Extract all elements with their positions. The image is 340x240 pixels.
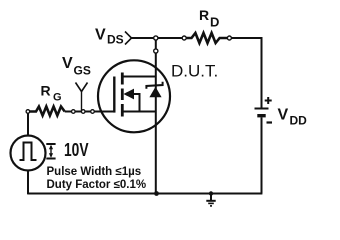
wire RD to top-right corner down to battery (231, 38, 261, 108)
battery VDD (255, 97, 273, 123)
body diode (zener) (146, 82, 162, 98)
node: gate measure point 3 (91, 110, 95, 114)
pulse generator V1 (11, 136, 46, 171)
svg-text:V: V (278, 107, 289, 124)
label RD (199, 7, 219, 30)
MOSFET Q1 internals (114, 73, 156, 117)
source stub (122, 111, 156, 113)
label RG (41, 83, 62, 104)
svg-text:DS: DS (107, 33, 124, 47)
wire drain-source vertical (VDS node down through DUT to bottom rail) (155, 38, 157, 194)
label VGS (62, 55, 91, 78)
node: drain measure point (154, 36, 158, 40)
label VDS (95, 27, 124, 47)
channel segment bottom (121, 104, 124, 117)
svg-text:R: R (41, 83, 51, 99)
wire pulse generator to bottom rail (27, 171, 29, 195)
node: measure point below (154, 49, 158, 53)
resistor RG (26, 107, 65, 116)
svg-text:DD: DD (290, 114, 308, 128)
gate bar (113, 77, 115, 113)
svg-text:G: G (53, 92, 62, 104)
wire battery to bottom rail (261, 118, 263, 194)
label VDD (278, 107, 308, 128)
svg-text:D: D (210, 15, 219, 30)
svg-text:D.U.T.: D.U.T. (171, 62, 218, 81)
svg-text:GS: GS (74, 64, 91, 78)
channel segment top (121, 73, 124, 85)
wire RG down to pulse generator (27, 113, 29, 136)
wire bottom rail (27, 193, 262, 195)
body arrow (124, 89, 135, 100)
channel segment middle (121, 89, 124, 101)
svg-text:V: V (95, 27, 106, 44)
svg-text:Pulse Width ≤1µs: Pulse Width ≤1µs (47, 166, 142, 178)
svg-text:Duty Factor ≤0.1%: Duty Factor ≤0.1% (47, 179, 147, 191)
arrow VDS probe (125, 32, 132, 45)
wire top rail left (VDS arrow to RD) (132, 37, 183, 39)
svg-text:R: R (199, 7, 209, 23)
drain stub (122, 76, 156, 78)
resistor RD (182, 33, 231, 43)
MOSFET D.U.T. circle (98, 60, 170, 132)
arrow VGS probe (76, 83, 88, 111)
ground (206, 191, 215, 206)
wire gate (RG to gate bar) (65, 111, 115, 113)
svg-text:10V: 10V (64, 139, 89, 160)
node: gate measure point 1 (72, 110, 76, 114)
node: gate measure point 2 (81, 110, 85, 114)
junction dot source at bottom rail (154, 191, 159, 196)
amplitude marker (46, 144, 55, 159)
svg-text:V: V (62, 55, 73, 72)
